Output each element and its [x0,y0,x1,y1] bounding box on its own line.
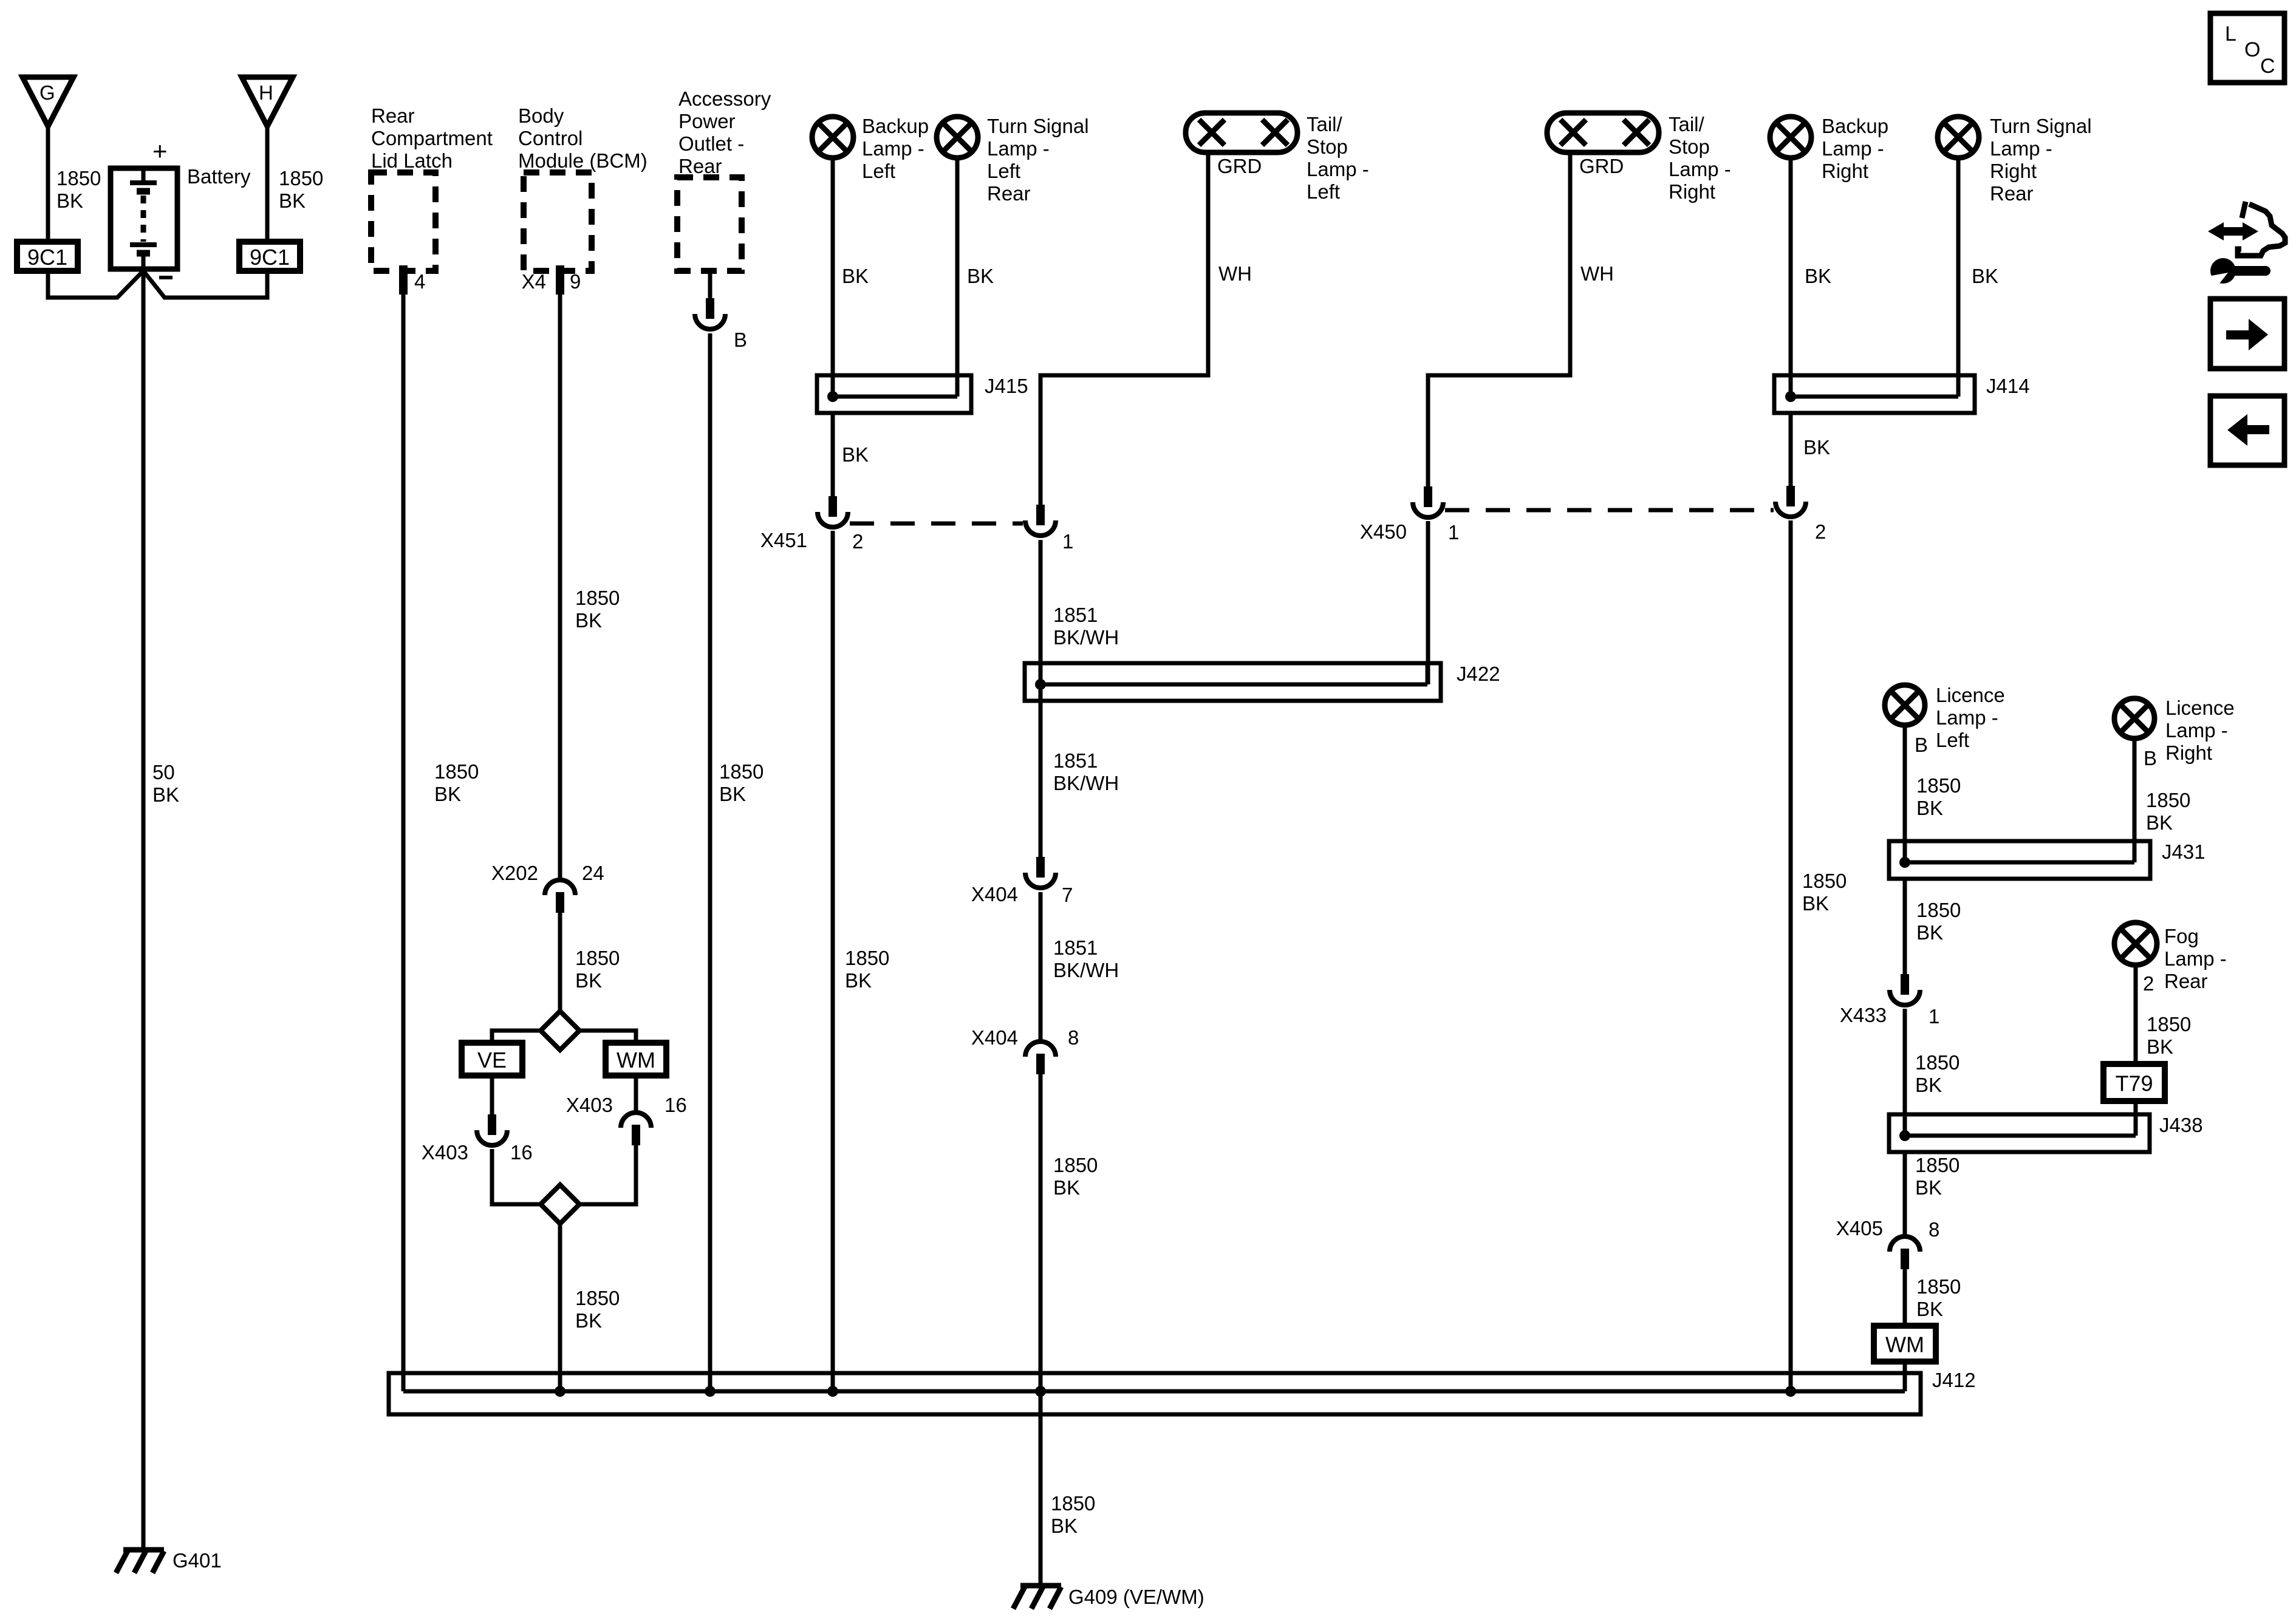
junction J412 junction outlet [705,1386,716,1397]
icon wrench [2201,258,2270,290]
wire X451-1 to X404-7 [1039,540,1043,857]
J422 internal bus riser [1426,663,1430,684]
icon forward arrow box [2210,299,2284,369]
svg-text:J438: J438 [2159,1114,2203,1136]
wire G to 9C1 [46,126,50,242]
splice diamond upper [541,1011,579,1050]
component box Accessory Power Outlet - Rear (dashed) [677,177,742,271]
wire licence left to J431 [1903,725,1907,860]
svg-text:1: 1 [1448,521,1459,544]
svg-text:16: 16 [510,1141,533,1164]
wire backup right to J414 [1789,158,1793,397]
svg-text:WH: WH [1218,262,1252,285]
svg-text:9: 9 [570,270,581,293]
lamp Licence Lamp - Left [1885,685,1925,725]
lamp Fog Lamp - Rear [2114,922,2157,965]
splice pack J414 [1774,375,1975,413]
junction J431 junction 1 [1899,857,1910,868]
BCM terminal pin [556,265,564,295]
svg-text:L: L [2225,22,2236,46]
connector mate line X451 (dashed) [850,522,1023,526]
connector X451 pin 1 [1025,505,1056,536]
wire licence right to J431 [2133,738,2137,862]
splice pack J438 [1889,1114,2150,1152]
ground G409 [1013,1586,1061,1609]
wire WM to J412 [1903,1362,1907,1391]
off-page connector G [22,77,73,126]
junction J414 junction 1 [1785,391,1796,402]
svg-text:J412: J412 [1932,1369,1976,1391]
wire J431 to X433-1 [1903,879,1907,974]
svg-text:2: 2 [852,530,863,553]
connector X404 pin 8 [1025,1042,1056,1074]
svg-text:9C1: 9C1 [250,245,290,270]
svg-text:J422: J422 [1457,663,1500,685]
svg-text:BK: BK [842,443,869,466]
wire T79 to J438 [2134,1101,2138,1131]
wire battery negative to G401 [142,269,146,1550]
svg-text:2: 2 [2143,972,2154,995]
svg-text:X405: X405 [1836,1217,1883,1239]
lamp Backup Lamp - Left [812,117,853,158]
svg-text:4: 4 [414,270,425,293]
wire X450-2 to J412 [1789,520,1793,1391]
svg-text:WH: WH [1580,262,1614,285]
svg-text:H: H [259,81,273,104]
J414 internal bus [1791,395,1958,399]
wire turn right to J414 [1956,158,1961,397]
wire WM to X403-16 [634,1076,638,1111]
svg-text:2: 2 [1815,520,1826,543]
wire 9C1 left to battery negative [48,271,143,298]
svg-text:J431: J431 [2162,840,2205,863]
svg-text:BK: BK [842,265,869,287]
lamp Tail/Stop Lamp - Right [1547,113,1659,152]
svg-text:9C1: 9C1 [27,245,67,270]
svg-text:VE: VE [477,1048,507,1072]
svg-text:WM: WM [1885,1332,1924,1357]
splice pack J422 [1025,663,1441,701]
splice pack J412 [389,1373,1921,1414]
svg-text:X451: X451 [760,529,807,551]
svg-text:X4: X4 [522,270,546,293]
svg-text:1: 1 [1062,530,1073,553]
connector outlet pin B [695,298,725,329]
svg-text:1: 1 [1929,1005,1939,1028]
svg-text:X403: X403 [566,1094,613,1116]
box fuse 9C1 left [17,242,78,271]
svg-text:B: B [1915,734,1928,756]
lamp Turn Signal Lamp - Right Rear [1938,117,1979,158]
wire lid latch to J412 [401,271,406,1391]
svg-text:C: C [2260,55,2275,78]
svg-text:BK: BK [1805,265,1831,287]
connector X403 pin 16 (WM side) [621,1113,651,1145]
wire X405-8 to WM [1903,1269,1907,1326]
svg-text:WM: WM [617,1048,655,1072]
wire X403 to lower diamond [492,1149,541,1204]
svg-text:7: 7 [1062,884,1073,906]
svg-text:GRD: GRD [1217,155,1262,177]
J412 internal bus [403,1389,1905,1394]
wire J412 to G409 [1039,1391,1043,1586]
box WM harness tag [1874,1326,1936,1362]
svg-text:O: O [2244,38,2260,61]
off-page connector H [242,77,293,126]
svg-text:X404: X404 [971,1026,1018,1049]
wire turn left to J415 [955,158,960,397]
svg-text:8: 8 [1068,1026,1079,1049]
wire fog to T79 [2134,965,2138,1064]
wire X404-7 to X404-8 [1039,892,1043,1040]
wire diamond to VE [492,1031,541,1043]
svg-text:BK: BK [967,265,994,287]
svg-text:G409 (VE/WM): G409 (VE/WM) [1068,1586,1204,1608]
wire diamond to WM [579,1031,636,1043]
icon back arrow box [2210,396,2284,465]
connector X404 pin 7 [1025,857,1056,888]
connector X403 pin 16 (VE side) [477,1114,507,1145]
svg-text:G401: G401 [173,1549,222,1572]
wire outlet to pin B [708,271,712,298]
lid latch terminal pin [399,265,408,295]
wire J438 to X405-8 [1903,1152,1907,1235]
svg-text:G: G [39,81,55,104]
connector X405 pin 8 [1890,1236,1920,1269]
svg-text:8: 8 [1929,1218,1939,1241]
svg-text:16: 16 [665,1094,687,1116]
wire X450-1 to J422 bus [1426,521,1430,684]
wire tail right GRD to X450-1 [1428,152,1570,486]
J431 internal bus [1905,861,2134,865]
connector X450 pin 1 [1413,486,1443,517]
svg-text:BK: BK [1803,436,1830,459]
component box Body Control Module (BCM) (dashed) [524,172,592,271]
box T79 connector [2103,1064,2165,1101]
wire X403 to lower diamond right [579,1145,636,1204]
wire tail left GRD to X451-1 [1040,152,1208,505]
wire X433-1 to J438 [1903,1009,1907,1131]
svg-text:B: B [2144,747,2157,769]
icon vehicle silhouette [2238,202,2285,256]
wire BCM X4-9 down to X202 [558,271,562,878]
splice pack J431 [1889,841,2150,879]
svg-text:X450: X450 [1360,520,1407,543]
wire X202 to splice diamond [558,913,562,1012]
junction J438 junction 1 [1899,1130,1910,1141]
lamp Tail/Stop Lamp - Left [1186,113,1297,152]
connector X450 pin 2 [1775,486,1806,517]
icon double arrow [2208,222,2258,240]
wire VE to X403-16 [490,1076,494,1114]
lamp Backup Lamp - Right [1770,117,1811,158]
junction J412 junction BCM [555,1386,565,1397]
svg-text:GRD: GRD [1579,155,1624,177]
junction J412 junction backup left [827,1386,838,1397]
splice diamond lower [541,1185,579,1224]
wire lower diamond to J412 [558,1224,562,1391]
junction J422 junction 1 [1035,679,1046,690]
svg-text:Battery: Battery [187,165,251,188]
ground G401 [116,1550,164,1573]
icon LOC box [2210,13,2284,83]
J422 internal bus [1040,683,1427,687]
J415 internal bus [833,395,957,399]
wire backup left to J415 [831,158,835,397]
svg-text:J415: J415 [985,375,1028,397]
J438 internal bus [1905,1134,2136,1138]
wire J415 to X451-2 [831,413,835,496]
splice pack J415 [817,375,971,413]
box fuse 9C1 right [239,242,300,271]
J438 internal bus riser [2134,1114,2138,1136]
wire J414 to X450-2 [1789,413,1793,486]
J431 internal bus riser [2133,841,2137,862]
wire X451-2 to J412 [831,531,835,1391]
svg-text:T79: T79 [2115,1071,2153,1096]
svg-text:X404: X404 [971,883,1018,905]
svg-text:J414: J414 [1986,375,2030,397]
connector mate line X450 (dashed) [1445,508,1774,513]
component box Rear Compartment Lid Latch (dashed) [371,172,436,271]
battery minus sign [159,276,173,279]
svg-text:X202: X202 [491,862,538,884]
box VE harness [462,1043,522,1076]
wire X404-8 to J412 [1039,1074,1043,1391]
wire H to 9C1 [265,126,270,242]
connector X433 pin 1 [1890,974,1920,1005]
wire outlet to J412 [708,333,712,1391]
connector X202 pin 24 [545,880,575,913]
svg-text:B: B [734,329,747,351]
svg-text:X403: X403 [422,1141,468,1164]
svg-text:X433: X433 [1840,1004,1887,1026]
lamp Licence Lamp - Right [2114,698,2154,738]
junction J412 junction tail chain [1035,1386,1046,1397]
wire 9C1 right to battery negative [143,271,267,298]
box WM harness [606,1043,666,1076]
lamp Turn Signal Lamp - Left Rear [937,117,978,158]
svg-text:BK: BK [1972,265,1998,287]
battery [111,168,177,269]
svg-text:+: + [152,137,168,165]
junction J415 junction 1 [827,391,838,402]
junction J412 junction backup right [1785,1386,1796,1397]
connector X451 pin 2 [818,496,848,527]
svg-text:24: 24 [582,862,604,884]
